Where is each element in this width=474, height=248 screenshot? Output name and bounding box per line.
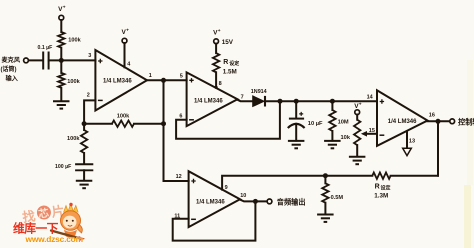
wire node A to R2: [60, 60, 62, 73]
svg-text:1/4 LM346: 1/4 LM346: [103, 79, 132, 85]
svg-text:8: 8: [219, 81, 222, 87]
wire R3 to node B column: [134, 123, 164, 125]
svg-text:15V: 15V: [222, 39, 234, 46]
svg-text:R: R: [375, 183, 380, 190]
watermark: mascot: [51, 203, 85, 241]
svg-text:0.5M: 0.5M: [331, 195, 344, 201]
wire V+ to R1: [60, 20, 62, 32]
capacitor C3 10uF wire: [295, 101, 297, 117]
pot wiper arrow to U4 pin 15: [366, 133, 377, 135]
ground G4: [324, 140, 341, 142]
svg-text:100k: 100k: [67, 136, 80, 142]
capacitor C1 0.1uF plates: [42, 52, 44, 70]
svg-text:+: +: [359, 103, 362, 108]
svg-text:1: 1: [149, 73, 152, 79]
wire U3 pin 11 feedback loop: [173, 201, 256, 240]
svg-text:7: 7: [241, 94, 244, 100]
svg-text:13: 13: [409, 139, 415, 145]
svg-text:5: 5: [180, 74, 183, 80]
wire pin 4: [124, 43, 126, 67]
wire V+ to R8: [356, 115, 358, 120]
wire: C1 to node A to op-amp U1 pin 3: [49, 59, 96, 61]
svg-text:+: +: [218, 29, 221, 34]
wire R2 to ground: [60, 88, 62, 101]
junction dot audio out: [253, 199, 258, 204]
svg-text:100k: 100k: [68, 38, 81, 44]
terminal V+ for U1 pin 4: [122, 38, 127, 43]
resistor R9 0.5M: [324, 176, 326, 184]
junction dot pin2 node: [82, 121, 87, 126]
terminal V+ 15V: [214, 39, 219, 44]
wire U3 pin 9 up and right: [222, 176, 325, 190]
wire node B down to U3 pin 12: [164, 80, 189, 181]
resistor R2 100k: [58, 73, 64, 88]
C3 plus sign: [299, 112, 303, 116]
terminal V+ top left: [59, 15, 64, 20]
wire C2 to ground: [83, 170, 85, 180]
svg-text:10M: 10M: [338, 120, 349, 126]
wire diode to U4 pin 14 (main node): [265, 100, 377, 102]
svg-text:1/4 LM346: 1/4 LM346: [196, 200, 225, 206]
op-amp U4 1/4 LM346: [377, 90, 428, 146]
svg-text:100k: 100k: [67, 79, 80, 85]
svg-text:3: 3: [88, 53, 91, 59]
svg-text:(话筒): (话筒): [1, 65, 17, 73]
svg-text:麦克风: 麦克风: [2, 56, 21, 64]
wire C3 to ground: [295, 124, 297, 141]
terminal: audio output: [267, 199, 272, 204]
svg-text:2: 2: [87, 93, 90, 99]
wire output down to feedback row: [437, 121, 439, 175]
op-amp U2 1/4 LM346: [187, 72, 238, 126]
wire U1 output to U2 pin 5: [147, 79, 187, 81]
svg-text:100 µF: 100 µF: [55, 164, 71, 170]
U4 pin 13 wire and open arrow: [406, 131, 408, 148]
wire U3 output: [240, 200, 267, 202]
svg-text:12: 12: [176, 174, 182, 180]
terminal V+ for pot: [355, 110, 360, 115]
node B junction: [161, 78, 166, 83]
C3 plates (polarized): [289, 118, 304, 120]
svg-text:10 µF: 10 µF: [308, 121, 323, 127]
junction dot after diode: [278, 99, 283, 104]
svg-text:10: 10: [240, 193, 246, 199]
wire R7 to ground: [331, 131, 333, 141]
ground G3: [288, 140, 305, 142]
wire to R3: [84, 123, 112, 125]
wire: input terminal to C1: [28, 59, 43, 61]
svg-text:0.1 µF: 0.1 µF: [38, 45, 53, 51]
ground G5: [349, 156, 366, 158]
svg-text:音频输出: 音频输出: [277, 197, 306, 206]
capacitor C2 100uF: [75, 163, 93, 165]
wire R9 to ground: [324, 203, 326, 215]
resistor R1 100k: [58, 32, 64, 48]
resistor R7 10M: [331, 101, 333, 110]
junction dot on node column: [161, 121, 166, 126]
svg-text:16: 16: [429, 113, 435, 119]
svg-text:1.5M: 1.5M: [223, 69, 237, 76]
svg-text:+: +: [126, 29, 129, 34]
resistor R4 100k to C2: [83, 124, 85, 130]
wire U1 pin 2: [84, 100, 95, 123]
svg-text:1/4 LM346: 1/4 LM346: [194, 98, 223, 104]
op-amp U3 1/4 LM346: [189, 171, 240, 227]
wire U2 pin 6 feedback loop: [176, 101, 280, 139]
potentiometer R8 10k: [354, 120, 360, 145]
svg-text:10k: 10k: [341, 135, 351, 141]
wire junction to R10: [325, 175, 372, 177]
svg-text:15: 15: [369, 128, 375, 134]
diode D1 1N914: [253, 96, 264, 107]
watermark: zhao-xin-pian text: [21, 203, 65, 225]
wire to R6: [215, 44, 217, 54]
svg-text:14: 14: [367, 94, 374, 100]
svg-text:输入: 输入: [6, 75, 19, 83]
svg-text:1/4 LM346: 1/4 LM346: [388, 119, 417, 125]
ground G6: [317, 214, 334, 216]
svg-text:6: 6: [179, 114, 182, 120]
svg-text:www.dzsc.com: www.dzsc.com: [25, 234, 83, 244]
node A junction: [59, 58, 64, 63]
terminal: microphone input: [24, 58, 29, 63]
resistor R3 100k feedback: [112, 121, 134, 127]
junction dot at output: [436, 119, 441, 124]
wire U2 output to diode: [238, 100, 253, 101]
svg-text:+: +: [63, 6, 66, 11]
wire R6 to U2 pin 8: [215, 72, 217, 87]
wire R4 to C2: [83, 153, 85, 163]
junction dot at C3: [294, 99, 299, 104]
svg-text:设定: 设定: [381, 185, 391, 192]
resistor R6 R-set 1.5M: [213, 53, 219, 72]
svg-text:控制输出: 控制输出: [458, 117, 474, 126]
wire U4 output to control terminal: [428, 120, 450, 122]
wire R8 to ground: [356, 145, 358, 156]
terminal: control output: [450, 119, 455, 124]
svg-text:1N914: 1N914: [251, 89, 267, 95]
resistor R10 R-set 1.3M: [372, 173, 390, 179]
wire R1 to node A: [60, 48, 62, 61]
op-amp U1 1/4 LM346: [95, 50, 147, 111]
svg-text:设定: 设定: [229, 60, 239, 67]
junction dot at R7: [330, 99, 335, 104]
svg-text:R: R: [223, 59, 228, 66]
svg-text:100k: 100k: [117, 114, 130, 120]
ground G1: [53, 100, 70, 102]
wire R10 to output column: [391, 175, 438, 177]
ground G2: [76, 180, 93, 182]
svg-text:1.3M: 1.3M: [374, 193, 388, 200]
junction dot 0.5M: [323, 173, 328, 178]
